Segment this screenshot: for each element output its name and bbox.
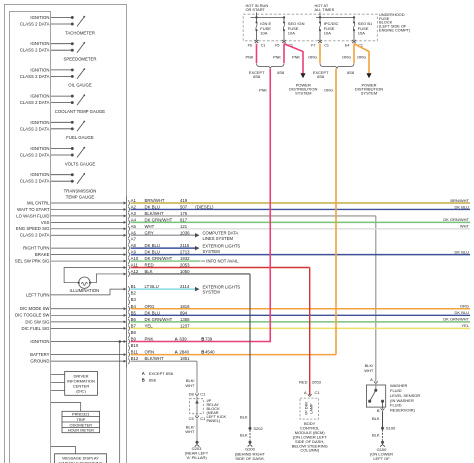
wire ORG from SEO B1 fuse (342, 44, 354, 63)
lamp ILLUMINATION (70, 277, 100, 293)
svg-text:B6: B6 (131, 317, 137, 322)
node EXTERIOR LIGHTS SYSTEM A8 (195, 244, 240, 254)
svg-text:PNK: PNK (259, 88, 267, 93)
svg-text:894: 894 (180, 310, 188, 315)
brace pink fuses (257, 63, 285, 69)
pin C5 C1 (relay block) (189, 416, 206, 421)
svg-text:1358: 1358 (180, 317, 190, 322)
wire BATTERY input (30, 352, 126, 357)
pin B4 wire ORG 1816 (128, 304, 470, 312)
svg-text:DIC FUEL SIG: DIC FUEL SIG (21, 326, 50, 331)
svg-text:RED: RED (145, 263, 154, 268)
pin A7 (128, 237, 136, 245)
svg-text:IGNITION: IGNITION (30, 94, 49, 99)
svg-text:A4: A4 (131, 217, 137, 222)
svg-text:COOLANT TEMP GAUGE: COOLANT TEMP GAUGE (55, 109, 106, 114)
svg-text:BLK/WHT: BLK/WHT (145, 356, 164, 361)
node POWER DISTRIBUTION SYSTEM (orange) (355, 82, 383, 95)
svg-text:CLASS 2 DATA: CLASS 2 DATA (20, 22, 50, 27)
I/P relay block dashed box (190, 396, 204, 416)
wire ORG vertical to B11 (324, 69, 336, 355)
svg-text:C1: C1 (261, 43, 266, 47)
svg-text:1036: 1036 (180, 230, 190, 235)
wire BLK/WHT 1851 down (196, 361, 198, 393)
svg-text:B8: B8 (131, 330, 137, 335)
svg-text:YEL: YEL (461, 323, 469, 328)
svg-text:4540: 4540 (205, 350, 215, 355)
svg-text:LEFT OF: LEFT OF (373, 456, 390, 461)
pin B5 wire DK BLU 894 (128, 310, 470, 318)
svg-text:BRAKE: BRAKE (35, 252, 50, 257)
svg-text:BLK: BLK (240, 433, 248, 438)
svg-text:2053: 2053 (180, 263, 190, 268)
svg-text:B: B (201, 350, 204, 355)
svg-text:SYSTEM: SYSTEM (203, 249, 221, 254)
wire LO WASH FLUID input (16, 213, 126, 218)
pin D8 C1 (relay block) (189, 392, 206, 397)
bus HOT IN RUN (fuse tops) (251, 12, 286, 18)
wire BLK S100 to G100 (372, 430, 383, 441)
wire MIL CNTRL input (27, 200, 126, 205)
svg-text:(DIC): (DIC) (76, 388, 86, 393)
svg-text:LINES SYSTEM: LINES SYSTEM (203, 236, 234, 241)
svg-text:CLASS 2 DATA: CLASS 2 DATA (20, 74, 50, 79)
fuse IPC/DIC 10A (318, 17, 338, 43)
pin A9 wire DK BLU 2713 (128, 250, 470, 258)
label DK GRN/WHT right edge (443, 317, 469, 322)
label DK BLU right edge (455, 249, 470, 254)
wire illumination to A12 (90, 273, 126, 283)
gauge TRANSMISSION TEMP GAUGE (20, 172, 97, 199)
svg-text:IGNITION: IGNITION (30, 120, 49, 125)
svg-text:ALL TIMES: ALL TIMES (315, 7, 335, 12)
svg-text:HOUR METER: HOUR METER (68, 428, 94, 433)
svg-text:B: B (201, 337, 204, 342)
svg-text:WAIT TO START: WAIT TO START (17, 207, 50, 212)
pin B9 wire PNK 639/739 (128, 337, 271, 345)
label WHT right edge (460, 224, 470, 229)
message display box (55, 454, 107, 463)
svg-text:TACHOMETER: TACHOMETER (65, 30, 95, 35)
svg-text:639: 639 (180, 337, 188, 342)
pin A5 wire WHT 121 (128, 224, 470, 232)
wire BLK 1050 down to S202 (249, 274, 251, 428)
node EXTERIOR LIGHTS SYSTEM B1 (195, 285, 240, 295)
svg-text:B7: B7 (131, 323, 137, 328)
label 8S8 (orange) (347, 70, 354, 75)
svg-text:A: A (370, 377, 373, 382)
label HOT AT ALL TIMES (315, 3, 335, 12)
label BODY CONTROL MODULE (292, 421, 328, 453)
svg-text:C1: C1 (315, 390, 321, 395)
label I/P RELAY BLOCK (207, 398, 227, 423)
svg-text:8S8: 8S8 (317, 74, 324, 79)
svg-text:ORG: ORG (357, 54, 366, 59)
label 8S8 (pink) (277, 70, 284, 75)
svg-text:PANEL): PANEL) (207, 418, 221, 423)
underhood fuse block dashed box (243, 14, 377, 41)
wire BLK S202 to G200 (240, 430, 250, 441)
svg-text:A3: A3 (131, 211, 137, 216)
svg-text:PNK: PNK (246, 54, 254, 59)
svg-text:WHT: WHT (185, 383, 195, 388)
svg-text:LAMP: LAMP (309, 403, 313, 414)
svg-text:A6: A6 (131, 230, 137, 235)
wire ORG branch to power distribution (354, 44, 372, 79)
svg-text:IGNITION: IGNITION (30, 339, 49, 344)
pin E4 C1 (345, 43, 363, 47)
instrument cluster outer box (5, 5, 127, 463)
svg-text:A: A (304, 390, 307, 395)
wire ORG from IPC/DIC fuse (308, 44, 320, 63)
gauge COOLANT TEMP GAUGE (20, 94, 106, 114)
svg-text:SYSTEM: SYSTEM (203, 290, 221, 295)
svg-text:WHT: WHT (145, 224, 155, 229)
pin B2 (128, 291, 136, 299)
label DK BLU right edge (455, 204, 470, 209)
svg-text:DIC TOGGLE SW: DIC TOGGLE SW (15, 313, 50, 318)
svg-text:CLASS 2 DATA: CLASS 2 DATA (20, 179, 50, 184)
svg-text:IGNITION: IGNITION (30, 172, 49, 177)
svg-text:VOLTS GAUGE: VOLTS GAUGE (65, 161, 96, 166)
svg-text:DK BLU: DK BLU (145, 250, 161, 255)
svg-text:YEL: YEL (145, 323, 154, 328)
svg-text:F6: F6 (248, 43, 252, 47)
svg-text:121: 121 (180, 224, 188, 229)
wire DIC FUEL SIG input (21, 326, 126, 331)
pin B7 wire YEL 1237 (128, 323, 470, 331)
wire DIC TOGGLE SW input (15, 313, 126, 318)
svg-text:S202: S202 (253, 426, 263, 431)
svg-text:SYSTEM: SYSTEM (361, 91, 377, 96)
wire PNK from IGN E fuse (246, 44, 257, 63)
svg-text:C5: C5 (189, 416, 195, 421)
svg-text:VSS: VSS (41, 220, 50, 225)
svg-text:DK GRN/WHT: DK GRN/WHT (443, 217, 469, 222)
svg-text:507: 507 (180, 204, 188, 209)
svg-text:INFO NOT AVAIL: INFO NOT AVAIL (206, 258, 239, 263)
wire VSS input (41, 220, 127, 225)
wires to DIC box (51, 375, 65, 391)
svg-text:ILLUMINATION: ILLUMINATION (70, 288, 100, 293)
pin A3 wire BLK/WHT 776 to washer sensor (128, 211, 376, 219)
wire BRAKE input (35, 252, 126, 257)
gauge VOLTS GAUGE (20, 146, 96, 166)
svg-text:GRY: GRY (145, 230, 154, 235)
wire RED 2053 down to BCM (309, 268, 311, 396)
pin B (washer sensor) (377, 408, 384, 413)
pin F7 C1 (311, 43, 329, 47)
svg-text:B2: B2 (131, 291, 137, 296)
svg-text:B: B (142, 378, 145, 383)
label EXCEPT 8S8 (pink) (249, 70, 265, 79)
svg-text:BLK: BLK (372, 432, 380, 437)
pin F5 C1 (275, 43, 293, 47)
svg-text:DK BLU: DK BLU (145, 310, 161, 315)
svg-text:IGNITION: IGNITION (30, 15, 49, 20)
svg-text:2840: 2840 (180, 350, 190, 355)
wire ENG SPEED SIG input (16, 226, 127, 231)
svg-text:A9: A9 (131, 250, 137, 255)
label DK GRN/WHT right edge (443, 217, 469, 222)
pin A2 wire DK BLU 507 (128, 204, 470, 212)
wire SEL SW PRK SIG input (15, 258, 127, 263)
svg-text:2115: 2115 (180, 243, 190, 248)
pin A4 wire DK GRN/WHT 817 (128, 217, 470, 225)
svg-text:SEL SW PRK SIG: SEL SW PRK SIG (15, 258, 50, 263)
node POWER DISTRIBUTION SYSTEM (pink) (289, 82, 317, 95)
wire GROUND input (30, 359, 126, 364)
svg-text:C1: C1 (200, 392, 206, 397)
node COMPUTER DATA LINES SYSTEM (195, 231, 238, 241)
svg-text:CLASS 2 DATA: CLASS 2 DATA (20, 48, 50, 53)
svg-text:DK BLU: DK BLU (145, 204, 161, 209)
svg-text:176: 176 (180, 211, 188, 216)
wire to message display (51, 446, 75, 453)
svg-text:ENG SPEED SIG: ENG SPEED SIG (16, 226, 50, 231)
svg-text:IGNITION: IGNITION (30, 146, 49, 151)
svg-text:COLUMN): COLUMN) (300, 448, 319, 453)
label BLK/WHT (B12 drop) (185, 378, 195, 388)
svg-text:PRND321: PRND321 (72, 412, 90, 417)
svg-text:B11: B11 (131, 350, 139, 355)
svg-text:PNK: PNK (292, 54, 300, 59)
svg-text:FUEL GAUGE: FUEL GAUGE (66, 135, 94, 140)
svg-text:DK BLU: DK BLU (455, 310, 470, 315)
svg-text:A: A (142, 371, 145, 376)
label BRN/WHT right edge (450, 198, 469, 203)
svg-text:CLASS 2 DATA: CLASS 2 DATA (20, 100, 50, 105)
label HOT IN RUN OR START (246, 3, 269, 12)
gauge FUEL GAUGE (20, 120, 94, 140)
svg-text:ORG: ORG (308, 54, 317, 59)
svg-text:'A' PILLAR): 'A' PILLAR) (186, 455, 207, 460)
svg-text:8S8: 8S8 (347, 70, 354, 75)
label BLK (above S202) (240, 415, 248, 420)
svg-text:ORG: ORG (145, 304, 155, 309)
svg-text:DIC MODE SW: DIC MODE SW (20, 306, 51, 311)
svg-text:15A: 15A (358, 30, 365, 35)
svg-text:D8: D8 (189, 392, 195, 397)
svg-text:ENGINE COMPT): ENGINE COMPT) (379, 28, 411, 33)
pin A (washer sensor) (370, 377, 377, 383)
svg-text:CLASS 2 DATA: CLASS 2 DATA (20, 233, 50, 238)
svg-text:A12: A12 (131, 269, 139, 274)
pin B1 wire LT BLU 2114 (128, 284, 197, 292)
label RED 2053 (299, 380, 322, 385)
gauge SPEEDOMETER (20, 41, 97, 61)
label UNDERHOOD FUSE BLOCK (379, 12, 411, 33)
svg-text:WHT: WHT (364, 368, 374, 373)
PRND321/TRIP/ODOMETER/HOUR METER stack (62, 411, 100, 432)
svg-text:B4: B4 (131, 304, 137, 309)
svg-text:739: 739 (205, 337, 213, 342)
wire PNK from SEO IGN fuse (273, 44, 284, 63)
label G203 (185, 446, 209, 460)
svg-text:A7: A7 (131, 237, 137, 242)
pin A12 wire BLK 1050 (128, 269, 250, 277)
svg-text:B1: B1 (131, 284, 137, 289)
svg-text:RED: RED (299, 380, 308, 385)
svg-text:DK BLU: DK BLU (455, 249, 470, 254)
pin A6 wire GRY 1036 (128, 230, 197, 238)
svg-text:419: 419 (180, 198, 188, 203)
connector face line (126, 197, 128, 368)
svg-text:MIL CNTRL: MIL CNTRL (27, 200, 50, 205)
svg-text:BLK/WHT: BLK/WHT (145, 211, 164, 216)
svg-text:1851: 1851 (180, 356, 190, 361)
label I/P DIM LAMP (rotated) (304, 402, 313, 415)
pin A10 wire DK GRN/WHT 1932 (128, 256, 200, 264)
svg-text:B: B (377, 408, 380, 413)
svg-text:LEFT TURN: LEFT TURN (26, 292, 49, 297)
pin B3 (128, 297, 136, 305)
svg-text:PNK: PNK (273, 54, 281, 59)
svg-text:ORG: ORG (460, 304, 469, 309)
svg-text:E4: E4 (345, 43, 350, 47)
wire WAIT TO START input (17, 207, 126, 212)
svg-text:F7: F7 (311, 43, 315, 47)
svg-text:LT BLU: LT BLU (145, 284, 159, 289)
wire PNK vertical to B9 (259, 69, 270, 343)
wire RIGHT TURN input (23, 246, 126, 251)
fuse IGN E 10A (255, 17, 272, 43)
wire BLK/WHT to G203 (185, 418, 197, 440)
svg-text:ORN: ORN (145, 350, 155, 355)
svg-text:ORG: ORG (324, 88, 333, 93)
svg-text:C1: C1 (324, 43, 329, 47)
svg-text:DK GRN/WHT: DK GRN/WHT (145, 217, 173, 222)
driver information center box (65, 371, 98, 395)
svg-text:IGNITION: IGNITION (30, 67, 49, 72)
cluster gauge label inner box (10, 12, 51, 463)
ground G100 (380, 441, 385, 447)
svg-text:S100: S100 (386, 426, 396, 431)
svg-text:RESERVOIR): RESERVOIR) (390, 407, 415, 412)
washer fluid level sensor box (366, 384, 385, 409)
pin A1 wire BRN/WHT 419 (128, 198, 470, 206)
label G200 (235, 447, 266, 461)
gauge OIL GAUGE (20, 67, 92, 87)
pin B6 wire DK GRN/WHT 1358 (128, 317, 470, 325)
svg-text:I/P DIM: I/P DIM (304, 402, 308, 415)
wire DIC MODE SW input (20, 306, 127, 311)
svg-text:OIL GAUGE: OIL GAUGE (68, 83, 92, 88)
svg-text:8S8: 8S8 (277, 70, 284, 75)
svg-text:WHT: WHT (185, 429, 195, 434)
svg-text:C1: C1 (200, 416, 206, 421)
splice S202 (249, 426, 264, 431)
svg-text:DK GRN/WHT: DK GRN/WHT (443, 317, 469, 322)
svg-text:BRN/WHT: BRN/WHT (145, 198, 165, 203)
brace orange fuses (320, 63, 354, 69)
svg-text:EXCEPT 8S8: EXCEPT 8S8 (149, 371, 174, 376)
svg-text:BLK: BLK (372, 416, 380, 421)
svg-text:10A: 10A (324, 30, 331, 35)
svg-text:B5: B5 (131, 310, 137, 315)
svg-text:(DIESEL): (DIESEL) (195, 204, 214, 209)
svg-text:1050: 1050 (180, 269, 190, 274)
wire PNK branch to power distribution (284, 44, 306, 79)
svg-text:F5: F5 (275, 43, 279, 47)
pin A C1 (BCM) (304, 390, 320, 396)
svg-text:10A: 10A (260, 30, 267, 35)
pin B12 wire BLK/WHT 1851 (128, 356, 197, 364)
svg-text:TRIP: TRIP (76, 417, 85, 422)
label ORG right edge (460, 304, 469, 309)
svg-text:WHT: WHT (460, 224, 470, 229)
wire IGNITION input with junction (30, 339, 126, 463)
svg-text:817: 817 (180, 217, 188, 222)
label EXCEPT 8S8 (orange) (313, 70, 329, 79)
svg-text:LO WASH FLUID: LO WASH FLUID (16, 213, 49, 218)
node INFO NOT AVAIL (201, 258, 239, 263)
svg-text:DK GRN/WHT: DK GRN/WHT (145, 256, 173, 261)
svg-text:DIC SW SIG: DIC SW SIG (25, 319, 50, 324)
svg-text:BRN/WHT: BRN/WHT (450, 198, 469, 203)
svg-text:BLK: BLK (145, 269, 153, 274)
svg-text:ORG: ORG (342, 54, 351, 59)
svg-text:2053: 2053 (312, 380, 322, 385)
svg-text:B12: B12 (131, 356, 139, 361)
svg-text:B3: B3 (131, 297, 137, 302)
svg-text:1816: 1816 (180, 304, 190, 309)
svg-text:10A: 10A (288, 30, 295, 35)
svg-text:A2: A2 (131, 204, 137, 209)
svg-text:GROUND: GROUND (30, 359, 49, 364)
svg-text:CLASS 2 DATA: CLASS 2 DATA (20, 153, 50, 158)
svg-text:SIDE OF DASH,: SIDE OF DASH, (235, 456, 264, 461)
svg-text:ODOMETER: ODOMETER (70, 422, 93, 427)
svg-text:DK BLU: DK BLU (455, 204, 470, 209)
svg-text:BLK: BLK (240, 415, 248, 420)
I/P DIM LAMP dashed box (300, 398, 319, 419)
svg-text:IGNITION: IGNITION (30, 41, 49, 46)
svg-text:DK GRN/WHT: DK GRN/WHT (145, 317, 173, 322)
svg-text:TRANSMISSION: TRANSMISSION (64, 188, 97, 193)
pin F6 C1 (248, 43, 266, 47)
svg-text:2114: 2114 (180, 284, 190, 289)
label YEL right edge (461, 323, 469, 328)
wire to PRND321 stack (51, 403, 81, 412)
svg-text:8S8: 8S8 (149, 378, 157, 383)
svg-text:2713: 2713 (180, 250, 190, 255)
svg-text:A8: A8 (131, 243, 137, 248)
label G100 (370, 447, 393, 461)
pin B11 wire ORN 2840/4540 (128, 350, 336, 358)
wire illumination to A11 (64, 266, 126, 283)
pin A11 wire RED 2053 (128, 263, 310, 271)
svg-text:A5: A5 (131, 224, 137, 229)
svg-text:A11: A11 (131, 263, 139, 268)
note A EXCEPT 8S8 / B 8S8 (142, 371, 174, 383)
svg-text:CLASS 2 DATA: CLASS 2 DATA (20, 126, 50, 131)
wire BLK to S100 (372, 411, 383, 427)
svg-text:B10: B10 (131, 343, 139, 348)
bus HOT AT ALL TIMES (fuse tops) (316, 12, 355, 18)
fuse SEO IGN 10A (282, 17, 304, 43)
wire DIC SW SIG input (25, 319, 126, 324)
pin B10 (128, 343, 139, 351)
svg-text:OR START: OR START (246, 7, 266, 12)
svg-text:SPEEDOMETER: SPEEDOMETER (64, 57, 97, 62)
svg-text:DK BLU: DK BLU (145, 243, 161, 248)
gauge TACHOMETER (20, 15, 95, 35)
svg-text:1932: 1932 (180, 256, 190, 261)
ground G203 (195, 441, 200, 447)
svg-text:8S8: 8S8 (253, 74, 260, 79)
svg-text:A10: A10 (131, 256, 139, 261)
